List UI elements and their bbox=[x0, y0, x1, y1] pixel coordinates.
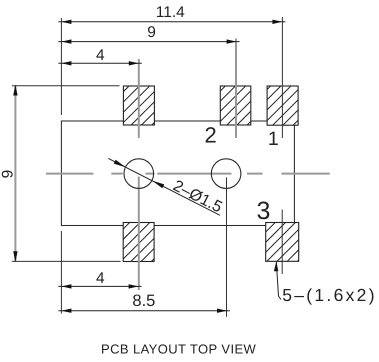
svg-text:9: 9 bbox=[0, 170, 17, 179]
svg-text:4: 4 bbox=[96, 270, 105, 287]
svg-text:11.4: 11.4 bbox=[156, 4, 185, 21]
svg-text:2: 2 bbox=[204, 122, 216, 147]
svg-text:1: 1 bbox=[268, 128, 279, 150]
svg-text:8.5: 8.5 bbox=[132, 292, 155, 310]
svg-text:9: 9 bbox=[147, 24, 156, 41]
svg-text:4: 4 bbox=[96, 47, 105, 64]
svg-text:2–Ø1.5: 2–Ø1.5 bbox=[170, 177, 225, 216]
svg-text:5–(1.6x2): 5–(1.6x2) bbox=[282, 285, 377, 305]
svg-text:3: 3 bbox=[257, 197, 271, 225]
svg-text:PCB LAYOUT TOP VIEW: PCB LAYOUT TOP VIEW bbox=[101, 342, 257, 357]
